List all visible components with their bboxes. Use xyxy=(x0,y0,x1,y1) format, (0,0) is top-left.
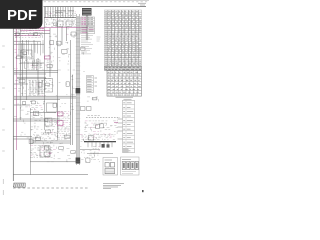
switch bank S101 xyxy=(33,111,43,117)
output stage Q110 bank xyxy=(32,132,58,144)
label: title top xyxy=(55,11,74,13)
wires: drops from top frame xyxy=(46,7,74,18)
parts list table header band xyxy=(105,66,142,70)
filler wiring A xyxy=(48,34,57,55)
test point TP1 box xyxy=(81,107,86,111)
filler wiring K xyxy=(31,127,56,138)
IC U113 outline xyxy=(47,103,58,112)
IC U109 outline xyxy=(40,146,50,157)
label frame (pink) xyxy=(45,56,51,59)
wire: bus y112 xyxy=(30,112,56,114)
IC U105 amp left xyxy=(28,80,46,95)
wire: mid bus y70 xyxy=(14,70,58,74)
revision stamp xyxy=(13,183,25,187)
page number xyxy=(142,190,144,192)
wire: bus y96 xyxy=(14,96,76,99)
connector view CN107 xyxy=(121,157,140,175)
capacitor C121 cluster xyxy=(57,41,62,46)
wire: rail x38 xyxy=(37,58,39,96)
note text mid xyxy=(87,97,99,102)
filler wiring C xyxy=(14,49,27,68)
wires: CN104 drops xyxy=(88,142,112,148)
parts list table lower xyxy=(107,70,142,96)
wire: rail x22 xyxy=(21,40,23,96)
wire: bus y84 xyxy=(14,83,28,85)
wire: rail x66 xyxy=(66,27,68,41)
filler wiring H xyxy=(81,47,86,72)
diode bank D101 xyxy=(58,46,70,58)
voltage chart VT102 xyxy=(81,26,95,33)
jack J101 cluster xyxy=(80,146,100,162)
wire: bus y44 xyxy=(14,43,44,45)
wire: rail x44 xyxy=(44,7,46,130)
sheet ref top-right xyxy=(138,3,146,5)
wire: bus y41 xyxy=(14,40,41,42)
IC U112 outline xyxy=(66,21,72,27)
wires: feed into U109 xyxy=(13,137,32,140)
relay RY102 body xyxy=(102,144,105,148)
bus branch rails xyxy=(71,16,88,146)
voltage chart VT101 xyxy=(81,17,95,26)
connector CN101 dark block xyxy=(82,8,92,16)
filler wiring F xyxy=(53,96,57,113)
net label pink U110 xyxy=(114,121,118,123)
filler wiring D xyxy=(14,102,30,117)
net: AM bus black xyxy=(14,32,50,34)
IC U108 mute switch xyxy=(44,118,56,126)
wire: bus y141 xyxy=(30,141,70,143)
footnote text xyxy=(103,184,124,189)
wire: top feed bus xyxy=(44,17,76,19)
IC U103 outline xyxy=(21,50,32,58)
svg-text:PDF: PDF xyxy=(7,7,37,24)
wire: bus y162 xyxy=(30,161,80,163)
net rail pink vertical xyxy=(16,29,18,150)
power bus B+ ladder xyxy=(76,14,81,165)
IC U101 tuner block xyxy=(28,29,43,38)
IC U106 outline xyxy=(45,79,53,93)
filler wiring E xyxy=(20,111,44,143)
relay RY101 cluster xyxy=(30,101,45,110)
capacitor C140 outline xyxy=(45,146,49,150)
wire: bottom rail xyxy=(13,174,88,176)
IC U111 outline xyxy=(57,21,63,27)
wire: rail x62 xyxy=(61,27,63,45)
wire: bus y105 xyxy=(14,104,30,106)
filler wiring I xyxy=(65,29,76,44)
labels along left edge xyxy=(14,75,26,94)
wire: bus y63 xyxy=(20,62,44,64)
filler wiring G xyxy=(47,143,76,162)
filler wiring J xyxy=(87,125,101,132)
wires: stubs to pin table xyxy=(118,119,123,139)
wire: bus y119 xyxy=(13,119,60,121)
shield dashed outline xyxy=(86,117,120,119)
capacitor C131 frame (pink) xyxy=(58,121,64,126)
resistor network RA101 xyxy=(14,29,28,38)
wire: lower mid xyxy=(80,149,100,151)
notes list xyxy=(81,35,101,54)
wire: lower right xyxy=(87,153,113,155)
IC U102 front-end xyxy=(45,12,76,27)
IC U109 headphone amp xyxy=(30,145,52,157)
connector view CN106 xyxy=(103,158,118,176)
PDF badge xyxy=(0,0,43,29)
IC U107 power stage xyxy=(57,111,71,139)
relay RY103 body xyxy=(107,144,110,147)
parts list table upper xyxy=(105,10,142,66)
net: FM trace pink xyxy=(14,34,40,36)
wire: rail x57 xyxy=(57,7,59,140)
label row above shield xyxy=(88,115,100,117)
IC U110 output filter xyxy=(84,121,118,134)
wire: CN104 heavy rail xyxy=(84,141,116,143)
filler wiring B xyxy=(58,61,75,110)
connector pin table CN105 xyxy=(116,97,135,153)
IF transformer T101 block xyxy=(87,76,98,93)
wire: bus y77 xyxy=(17,77,46,79)
wire: rail x50 xyxy=(49,28,51,77)
IC U103 decoder xyxy=(20,50,33,58)
wire: rail x30 xyxy=(30,108,32,175)
wire: rail x34 xyxy=(33,40,35,70)
net label pink C140 xyxy=(49,152,52,154)
connector CN104 row xyxy=(80,134,116,142)
IC U104 regulator xyxy=(45,57,54,69)
IC U108 outline xyxy=(45,118,52,126)
IC U106 amp right xyxy=(44,78,53,90)
wires: inter-stage verticals xyxy=(19,40,43,95)
transistor bank Q101-Q104 xyxy=(27,59,44,70)
net: audio R trace xyxy=(14,27,44,29)
wire: rail x20 xyxy=(19,28,21,120)
test point TP2 box xyxy=(87,107,92,111)
wire: rail x26 xyxy=(26,40,28,100)
capacitor C130 frame (pink) xyxy=(58,112,64,116)
filler wiring L xyxy=(56,147,69,151)
net: audio L trace xyxy=(29,27,88,29)
net: VCC trace xyxy=(20,29,50,31)
